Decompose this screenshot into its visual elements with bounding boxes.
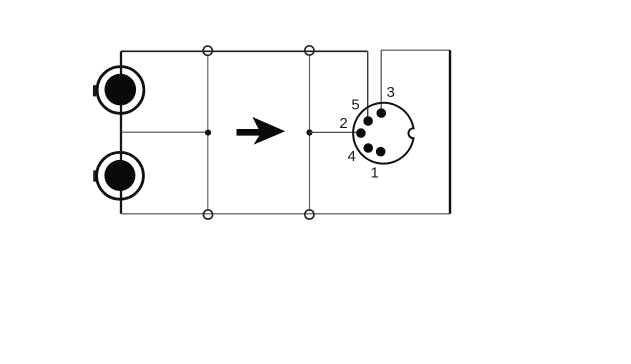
terminal T3: open circle on bottom rail (left)	[203, 210, 212, 219]
terminal T4: open circle on bottom rail (right)	[305, 210, 314, 219]
svg-text:2: 2	[339, 115, 347, 132]
svg-text:3: 3	[387, 84, 395, 101]
RCA phono connector J2 (bottom)	[93, 152, 143, 199]
wire: signal wire from node B to DIN pin 2	[310, 131, 359, 133]
wire: upper-right rail from pin-3 riser to right bus	[381, 49, 450, 51]
wire: middle signal wire from left bus to node A	[121, 131, 208, 133]
terminal T1: open circle on top rail (left)	[203, 46, 212, 55]
node B: junction dot on inner vertical link 2	[306, 129, 312, 135]
wire: top rail from left bus to DIN pin-5 drop	[121, 50, 368, 52]
wire: right vertical bus (thick)	[449, 50, 451, 214]
svg-text:1: 1	[371, 165, 379, 182]
DIN-5 connector shell (face view with right-side key notch)	[353, 103, 413, 164]
DIN pin 4	[363, 143, 373, 153]
svg-text:4: 4	[348, 148, 356, 165]
DIN pin 1	[376, 147, 386, 157]
wire: bottom rail from left bus to right bus	[121, 213, 450, 215]
terminal T2: open circle on top rail (right)	[305, 46, 314, 55]
wire: riser from DIN pin 3 up to upper-right rail	[380, 50, 382, 113]
DIN pin 2	[356, 128, 366, 138]
DIN pin 3	[377, 108, 387, 118]
svg-text:5: 5	[351, 97, 359, 114]
node A: junction dot on inner vertical link 1	[205, 130, 211, 136]
DIN pin 5	[363, 116, 373, 126]
wire: left vertical bus from top rail through both RCA centers to bottom rail	[120, 51, 122, 214]
signal direction arrow	[237, 117, 286, 145]
wire: inner vertical link 1	[207, 56, 209, 210]
RCA phono connector J1 (top)	[93, 67, 144, 114]
wire: inner vertical link 2	[309, 55, 311, 209]
wire: drop from top rail down to DIN pin 5	[367, 51, 369, 121]
